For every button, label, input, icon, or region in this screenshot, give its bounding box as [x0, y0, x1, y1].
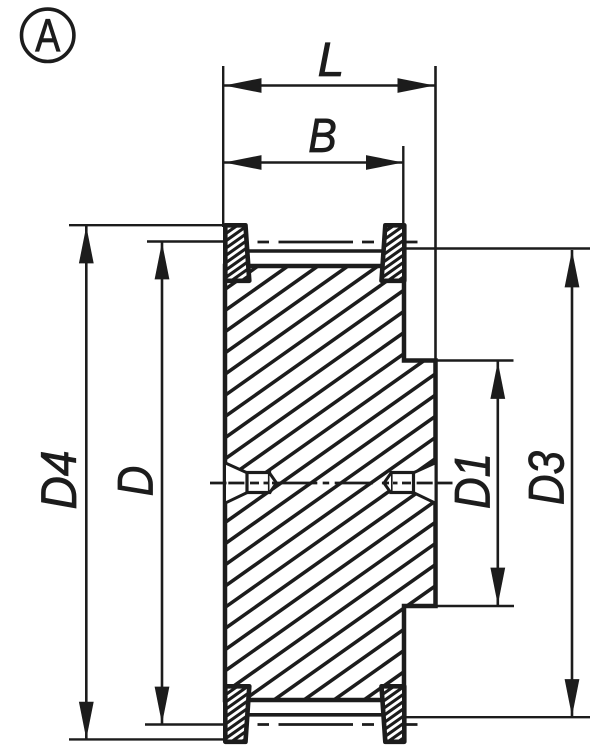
- horizontal centerline (dash-dot): [210, 482, 453, 485]
- extension line D3 top: [405, 247, 591, 249]
- svg-text:D3: D3: [519, 451, 575, 505]
- center drill hole left: drill point: [270, 473, 277, 493]
- extension line D1 bottom: [436, 605, 515, 607]
- dimension line D1: [496, 362, 499, 606]
- svg-text:D4: D4: [31, 451, 87, 510]
- arrowhead B left: [224, 155, 261, 170]
- arrowhead D top: [155, 242, 170, 279]
- svg-text:A: A: [35, 9, 60, 61]
- dimension line B: [224, 161, 403, 164]
- extension line D top: [147, 240, 225, 242]
- extension line left face (for L and B): [222, 66, 224, 227]
- arrowhead D1 bottom: [490, 568, 505, 605]
- flange top-left (cross-hatched): [218, 198, 258, 313]
- pulley body cross-section outline: [225, 266, 436, 700]
- arrowhead D1 top: [490, 362, 505, 399]
- detail marker circle A: [22, 9, 74, 61]
- center drill hole right: pilot bore: [391, 473, 414, 493]
- arrowhead L left: [224, 78, 261, 93]
- svg-text:D1: D1: [445, 453, 501, 509]
- belt seat outer-diameter line top: [247, 249, 383, 253]
- extension line right hub face (for L): [434, 66, 437, 361]
- center drill hole right: countersink cone: [414, 463, 435, 503]
- belt seat outer-diameter line bottom: [247, 713, 383, 717]
- pulley body cross-section hatching: [220, 116, 440, 750]
- extension line D4 bottom: [69, 738, 224, 740]
- extension line D bottom: [145, 723, 228, 725]
- arrowhead D bottom: [155, 687, 170, 724]
- center drill hole right: drill point: [384, 473, 391, 493]
- extension line D4 top: [69, 224, 224, 226]
- svg-text:B: B: [308, 110, 337, 163]
- pitch line bottom (dash-dot): [258, 723, 418, 726]
- arrowhead B right: [366, 155, 403, 170]
- dimension line D3: [571, 250, 574, 717]
- dimension line D4: [85, 226, 88, 739]
- svg-text:D: D: [108, 466, 164, 497]
- svg-text:L: L: [318, 34, 345, 87]
- center drill hole left: pilot bore: [247, 473, 270, 493]
- arrowhead L right: [398, 78, 435, 93]
- arrowhead D3 bottom: [565, 679, 580, 716]
- flange bottom-left (cross-hatched): [218, 659, 258, 750]
- extension line right of belt seat (for B): [402, 146, 404, 226]
- extension line D1 top: [436, 359, 514, 361]
- extension line D3 bottom: [402, 716, 590, 718]
- dimension line D: [161, 242, 164, 724]
- flange top-right (cross-hatched): [375, 198, 419, 313]
- center drill hole left: countersink cone: [226, 463, 247, 503]
- arrowhead D4 bottom: [79, 702, 94, 739]
- dimension line L: [224, 84, 435, 87]
- arrowhead D3 top: [565, 250, 580, 287]
- flange bottom-right (cross-hatched): [375, 659, 419, 750]
- arrowhead D4 top: [79, 226, 94, 263]
- pitch line top (dash-dot): [258, 241, 418, 244]
